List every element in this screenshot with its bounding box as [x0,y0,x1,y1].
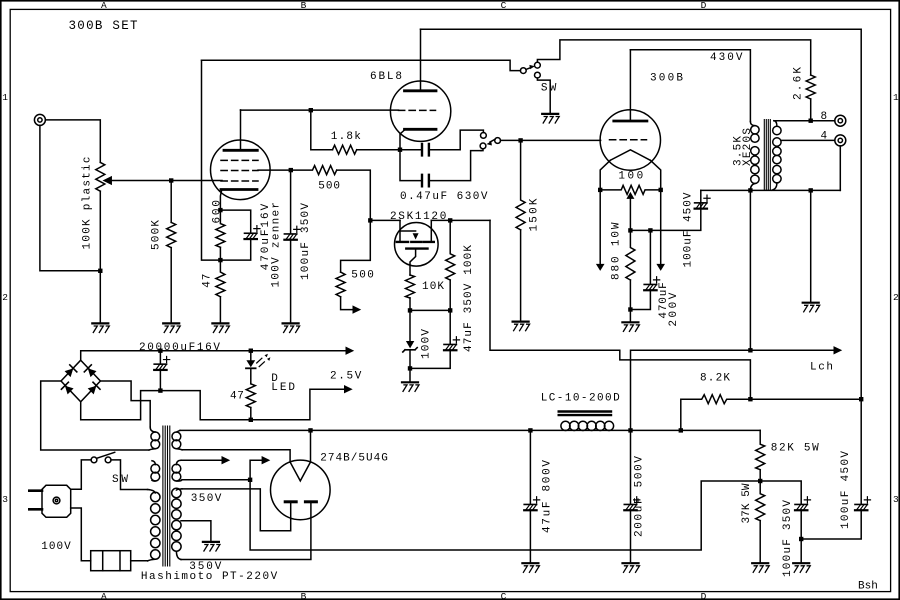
wire common to grid node [501,139,519,141]
resistor 100K [446,220,455,280]
node 47 LED bottom [249,418,253,422]
transistor 2SK1120 envelope [395,223,439,267]
tube 300B envelope [600,110,660,170]
node hum pot right [659,188,663,192]
potentiometer 100K plastic [96,162,105,191]
svg-text:2: 2 [893,292,899,303]
ground zener [402,381,418,383]
node screen [289,168,293,172]
arrow heater 2 [182,479,248,481]
svg-text:3: 3 [2,494,8,505]
PT winding heater right [176,460,181,464]
wire bridge minus [81,391,159,420]
wire node to 500K [170,181,172,223]
arrow to other channel [353,305,362,313]
wire jack ground side [40,125,100,270]
resistor 500 lower [336,272,345,297]
svg-text:SW: SW [541,82,557,94]
node cathode 600 top [218,208,222,212]
svg-text:500K: 500K [151,220,163,250]
wire node to ground [409,368,411,381]
potentiometer 100 hum [600,185,661,194]
svg-text:350V: 350V [191,493,222,505]
node Lch OPT [748,348,752,352]
svg-text:1.8k: 1.8k [331,131,361,143]
svg-text:47uF 800V: 47uF 800V [542,460,554,533]
wire 300B plate to OPT [630,50,750,122]
wire 4 ohm tap [781,139,835,141]
2SK1120 gate plate bar [406,247,427,249]
wire bridge AC right staircase [100,381,150,427]
node plate wire [309,108,313,112]
diode LED [250,351,252,361]
switch SW upper contact [535,62,541,68]
node 880 bottom [628,307,632,311]
node OPT primary bottom [748,188,752,192]
wire long feedback line left [202,60,219,260]
bridge diode bottom-left [65,386,74,395]
node OPT secondary ground [809,188,813,192]
node 100uF 350V bottom [799,537,803,541]
wire 274B filament right B+ [180,429,760,431]
switch SW mains lever [97,452,115,458]
wire gate branch to 500 lower [341,220,371,272]
capacitor 100uF 450V right wiring [860,399,862,504]
300B grid dashed [610,139,647,141]
svg-text:2: 2 [2,292,8,303]
resistor 47 LED [246,384,255,408]
node 47uF top [448,308,452,312]
switch cap selector lower contact [480,143,486,149]
pentode cathode bar [221,188,257,191]
wire node to ground [629,310,631,322]
capacitor 20000uF16V body [154,363,166,365]
svg-text:100uF 450V: 100uF 450V [682,192,694,267]
wire g2 to screen node [258,169,291,171]
svg-text:Hashimoto PT-220V: Hashimoto PT-220V [141,571,278,583]
wire driver B+ jog [490,220,750,397]
svg-text:2.6K: 2.6K [792,67,804,100]
PT core [163,426,170,566]
choke LC-10-200D winding [561,421,570,430]
wire zener node link [410,309,450,311]
svg-text:D: D [701,591,707,600]
capacitor 20000uF16V wiring [159,351,161,364]
resistor 500K [167,222,176,247]
OPT primary winding [750,122,755,126]
svg-text:LED: LED [271,382,295,394]
svg-text:100V zenner: 100V zenner [271,202,283,288]
capacitor 470uF16V body [245,232,257,234]
switch SW left contact [520,68,526,74]
capacitor 100uF 450V body [695,202,707,204]
PT winding unused left [152,461,155,465]
node 47uF800V [528,428,532,432]
wire 1.8k to cathode node [357,149,398,151]
svg-text:430V: 430V [710,52,743,64]
ground SW [542,113,558,115]
svg-text:B: B [301,591,307,600]
svg-text:100: 100 [618,171,643,183]
switch SW lever [526,68,531,70]
capacitor 0.47uF upper wiring [400,149,421,151]
svg-text:C: C [501,0,507,11]
274B filament V [290,462,310,481]
svg-text:1: 1 [2,92,8,103]
svg-text:A: A [101,0,107,11]
wire node to ground [99,271,101,323]
pentode plate lead [240,110,242,150]
ground 47uF 800V [522,562,538,564]
pentode grid g3 dashed [221,159,258,161]
wire 500 to gate node [337,170,371,218]
svg-text:LC-10-200D: LC-10-200D [541,393,620,405]
capacitor 0.47uF upper body [422,144,429,156]
2SK1120 gate lead [399,220,401,240]
6BL8 cathode bar [405,128,437,131]
svg-text:XE20S: XE20S [742,128,754,166]
2SK1120 gate arrow [413,233,419,239]
svg-text:300B SET: 300B SET [69,19,138,33]
wire zener to node [409,351,411,368]
node 8 ohm [809,119,813,123]
svg-text:47: 47 [201,274,213,288]
wire switch to primary top [111,460,148,490]
wire filament supply plus line [81,351,346,361]
capacitor 470uF 200V wiring [649,230,651,284]
mains plug prongs [29,491,42,510]
2SK1120 drain lead [430,220,432,240]
6BL8 plate lead [420,29,422,91]
pentode grid g2 dashed [221,170,258,172]
2SK1120 source lead [410,249,416,275]
6BL8 grid dashed [399,109,436,111]
tube 274B envelope [271,460,331,520]
node 6BL8 cathode [398,148,402,152]
node 500K top [169,178,173,182]
274B plate bar left [285,500,296,503]
wire 274B right plate to HV bottom [181,503,311,559]
capacitor 47uF 350V wiring [449,310,451,344]
wire plug to fuse [71,508,91,561]
wire fuse to primary bottom [131,560,148,562]
300B plate bar [614,120,647,123]
arrow filament plus [346,347,355,355]
svg-text:3: 3 [893,494,899,505]
PT winding HV 350V [176,489,182,490]
svg-text:47uF 350V 100K: 47uF 350V 100K [463,245,475,352]
wire 8.2K node to right edge [752,398,859,400]
wire secondary top to jack 8 [774,120,835,122]
LED emission arrows [257,358,265,366]
svg-text:500: 500 [351,270,374,282]
ground 880 [622,321,638,323]
OPT core [764,120,770,191]
capacitor 100uF 350V body [284,233,296,235]
filament arrow left [599,190,601,264]
wire gate node to MOSFET [370,219,400,221]
arrow Lch [834,346,843,354]
capacitor 100uF 450V wiring [700,190,702,202]
output jack 8 [835,115,846,126]
svg-text:D: D [701,0,707,11]
svg-text:200uF 500V: 200uF 500V [634,456,646,537]
svg-text:C: C [501,591,507,600]
wire heater2 to divider [250,480,758,550]
arrow heater 1 [181,459,222,461]
svg-text:600: 600 [212,200,224,224]
switch cap selector lever [490,139,495,142]
node LED top [249,349,253,353]
node 20000uF bottom [158,388,162,392]
node 82K 37K [758,479,762,483]
node 470uF200V top [648,228,652,232]
svg-text:100uF 350V: 100uF 350V [782,500,794,577]
capacitor 100uF 350V bridge body [795,503,807,505]
2SK1120 electrode bars [397,241,434,243]
wire 47 to ground [219,297,221,323]
node 8.2K right [748,397,752,401]
svg-text:100K plastic: 100K plastic [82,157,94,250]
wiper stem [629,199,631,231]
300B filament leg right [650,160,660,188]
wire SW upper to feedback [537,40,810,75]
switch SW lower contact [535,72,541,78]
arrow filament minus [344,385,353,393]
svg-text:300B: 300B [650,72,683,84]
ground HV tap [203,541,219,543]
PT winding heater top-left [150,427,155,432]
wire 37K to ground [759,521,761,563]
ground 200uF 500V [623,562,639,564]
node 274B filament B+ [308,428,312,432]
svg-text:47: 47 [230,391,244,403]
svg-text:2.5V: 2.5V [330,371,362,383]
capacitor 470uF 200V body [644,283,656,285]
svg-text:6BL8: 6BL8 [370,71,402,83]
capacitor 200uF 500V wiring [630,430,632,504]
wire 500K to ground [170,248,172,323]
ground 100uF 350V [793,562,809,564]
wire drain to B+ [431,219,490,221]
node right edge [859,397,863,401]
bridge rectifier diamond [61,360,100,402]
svg-text:Bsh: Bsh [858,581,878,593]
svg-text:Lch: Lch [810,362,833,374]
capacitor 200uF 500V body [624,503,636,505]
OPT secondary winding [774,121,777,127]
wire lower contact to cap [481,149,483,151]
svg-text:8.2K: 8.2K [700,373,730,385]
hum pot wiper arrow [626,192,634,199]
switch SW mains left [91,457,97,463]
svg-text:4: 4 [821,131,828,143]
wire bridge AC left [41,381,149,450]
bridge diode top-left [65,368,74,377]
capacitor 100uF 350V wiring [290,170,292,234]
wire 100K to node [449,280,451,310]
svg-text:B: B [301,0,307,11]
PT winding 274B filament right [176,430,180,432]
bridge diode bottom-right [88,386,97,395]
wire 880 to node [629,280,631,310]
svg-text:A: A [101,591,107,600]
resistor 880 [626,230,635,280]
resistor 8.2K [681,395,749,431]
wire node down to 1.8k [311,110,333,150]
wire plug to switch [71,460,91,489]
300B filament leg left [600,160,610,188]
capacitor 100uF 450V right body [855,503,867,505]
capacitor 0.47uF lower wiring [400,150,421,181]
node 10K bottom [408,308,412,312]
resistor 150K [516,140,525,229]
wire 2.6K to node [810,99,812,121]
capacitor 47uF 800V body [524,503,536,505]
300B filament [610,150,650,161]
6BL8 plate bar [405,89,437,92]
wire jack4 sleeve down [839,146,841,191]
svg-text:100uF 350V: 100uF 350V [300,203,312,280]
pot wiper arrow [104,177,111,184]
ground 500K [163,322,179,324]
capacitor 100uF 350V bridge wiring [760,481,801,504]
pentode cathode lead [220,191,221,208]
svg-text:37K 5W: 37K 5W [741,483,753,523]
300B plate lead [629,50,631,121]
wire 274B left plate to HV top [182,489,291,531]
wire 150K to ground [520,230,522,321]
wire B+ riser to Lch [631,350,834,430]
pentode plate bar [224,149,257,152]
ground 47 [212,322,228,324]
wire OPT B+ drop [749,190,751,350]
diode zener 100V [409,310,411,341]
tube 6BL8 triode envelope [390,81,450,141]
wire pentode plate to 6BL8 grid [241,109,399,111]
svg-text:20000uF16V: 20000uF16V [139,342,220,354]
capacitor 470uF16V wiring [220,210,250,233]
svg-text:100uF 450V: 100uF 450V [840,451,852,529]
svg-text:500: 500 [318,180,340,192]
output jack 4 [835,135,846,146]
2SK1120 internal gate wire [400,230,416,232]
wire cathode line to 100uF [630,204,700,231]
svg-text:1: 1 [893,92,899,103]
wire 47 to minus line [250,408,252,420]
node 200uF500V [628,428,632,432]
wire SW lower to ground [537,78,550,113]
6BL8 cathode lead [400,130,405,148]
wire 274B filament left [182,450,290,462]
node hum pot left [598,188,602,192]
wire pot bottom to node [99,191,101,271]
svg-text:8: 8 [821,111,828,123]
ground 150K [513,321,529,323]
ground pot [92,322,108,324]
input jack [34,114,45,125]
wire feedback line top [202,60,521,70]
resistor 10K [406,275,415,298]
pentode 6BL8 envelope [211,140,271,200]
wire 6BL8 plate B+ top line [421,29,862,399]
capacitor 47uF 800V wiring [529,430,531,504]
node 20000uF top [158,349,162,353]
wire secondary ground drop [810,190,812,302]
resistor 47 [216,260,225,297]
svg-text:0.47uF 630V: 0.47uF 630V [400,191,488,203]
wire filament minus line [160,389,344,420]
node drain 100K [448,218,452,222]
wire node to 300B grid [523,139,601,141]
node 300B grid [518,138,522,142]
PT winding primary 100V [148,490,156,494]
svg-text:100V: 100V [421,329,433,359]
choke LC-10-200D core [559,412,611,416]
node MOSFET gate [368,218,372,222]
svg-text:150K: 150K [529,198,541,231]
switch cap selector upper contact [481,133,487,139]
svg-text:2SK1120: 2SK1120 [390,211,446,223]
capacitor 0.47uF lower body [422,175,429,187]
switch cap selector common contact [495,138,501,144]
fuse [91,551,131,571]
resistor 2.6K [806,75,815,99]
wire wiper to grid [111,180,223,182]
wire LED to 47 [250,368,252,384]
switch SW mains right [105,457,111,463]
node 8.2K left [679,428,683,432]
node pot bottom [98,269,102,273]
resistor 37K 5W [756,481,765,521]
pentode grid g1 dashed [221,180,258,182]
node wiper 880 [628,228,632,232]
mains plug body [42,485,71,517]
wire HV center tap to ground [181,521,211,541]
svg-text:274B/5U4G: 274B/5U4G [320,452,388,464]
resistor 500 screen [291,166,337,175]
wire 600 to node [219,247,221,260]
ground 100uF 350V [283,322,299,324]
resistor 600 [216,210,225,247]
bridge diode top-right [88,368,97,377]
ground 37K [752,562,768,564]
node zener bottom [408,366,412,370]
resistor 82K 5W [756,430,765,469]
node 600 bottom [218,258,222,262]
filament arrow right [660,190,662,264]
wire OPT bottom line [701,189,841,191]
svg-text:100V: 100V [41,541,71,553]
wire 10K to node [409,298,411,310]
capacitor 47uF 350V body [444,343,456,345]
274B plate bar right [305,500,316,503]
ground OPT secondary [803,302,819,304]
resistor 1.8k [333,145,357,154]
wire 500 to arrow [341,297,353,310]
svg-text:10K: 10K [422,281,444,293]
wire jack to pot top [46,120,101,162]
